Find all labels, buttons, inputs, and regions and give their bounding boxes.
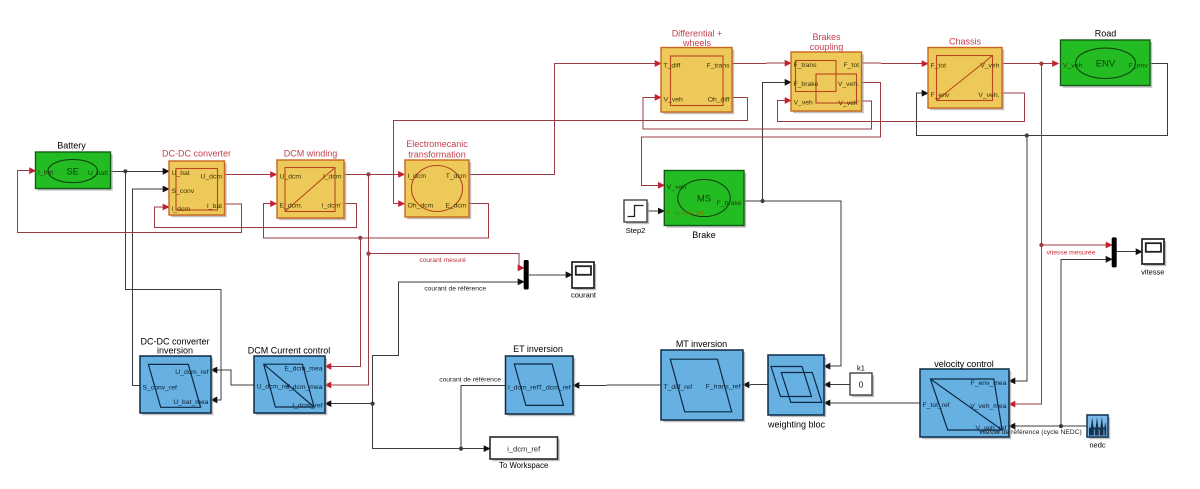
- svg-text:F_env_mea: F_env_mea: [971, 380, 1007, 387]
- svg-text:MT inversion: MT inversion: [676, 339, 727, 349]
- svg-text:inversion: inversion: [157, 345, 193, 355]
- wire I_dcm branch to I_dcm_mea: [328, 174, 369, 385]
- svg-text:F_tot: F_tot: [844, 62, 860, 69]
- svg-text:Oh_dcm: Oh_dcm: [408, 203, 434, 210]
- svg-text:I_dcm: I_dcm: [323, 173, 342, 180]
- svg-text:I_dcm_ref: I_dcm_ref: [292, 403, 322, 410]
- arrowhead into F_trans: [785, 60, 792, 67]
- svg-text:U_dcm_ref: U_dcm_ref: [257, 384, 290, 391]
- svg-text:Brake: Brake: [692, 230, 716, 240]
- svg-text:I_dcm: I_dcm: [408, 173, 427, 180]
- svg-text:weighting bloc: weighting bloc: [767, 420, 826, 430]
- arrowhead into I_dcm_mea: [324, 382, 331, 389]
- wire courant mux to courant scope: [529, 274, 570, 276]
- block DCM Current control: [254, 356, 327, 415]
- arrowhead into I_bat: [29, 167, 36, 174]
- arrowhead into V_veh of Road: [1052, 60, 1059, 67]
- arrowhead into courant mux input 1: [518, 265, 525, 272]
- arrowhead into V_veh_mea: [1008, 401, 1015, 408]
- block To Workspace (i_dcm_ref): [490, 437, 560, 461]
- wire Step2 to F_brake_ref: [647, 210, 662, 212]
- wire Differential Oh_diff to ET Oh_dcm: [394, 97, 748, 203]
- wire U_batt branch to U_bat_mea: [125, 171, 220, 400]
- svg-text:T_dcm_ref: T_dcm_ref: [538, 384, 571, 391]
- svg-text:V_veh.: V_veh.: [838, 81, 859, 88]
- wire i_dcm_ref branch to DCM CC I_dcm_ref: [328, 404, 462, 449]
- svg-text:Oh_diff: Oh_diff: [708, 96, 730, 103]
- svg-text:V_veh: V_veh: [1063, 62, 1082, 69]
- wire k1 to weighting input 2: [827, 384, 851, 386]
- block Battery (SE source): [36, 152, 113, 191]
- arrowhead into T_dcm_ref: [572, 382, 579, 389]
- wire F_brake to weighting top input: [744, 201, 841, 366]
- svg-text:courant de référence: courant de référence: [439, 377, 501, 384]
- arrowhead into V_veh of Brakes: [785, 97, 792, 104]
- svg-text:V_veh.: V_veh.: [978, 92, 999, 99]
- wire S_conv_ref to S_conv: [132, 189, 166, 385]
- wire velocity F_tot_ref to weighting input 3: [827, 402, 921, 404]
- svg-text:DCM Current control: DCM Current control: [248, 346, 331, 356]
- arrowhead into F_tot: [922, 60, 929, 67]
- svg-text:U_bat: U_bat: [172, 170, 190, 177]
- svg-text:Road: Road: [1095, 29, 1117, 39]
- svg-text:F_env: F_env: [931, 92, 950, 99]
- arrowhead into F_env_mea: [1008, 378, 1015, 385]
- svg-text:Electromecanic: Electromecanic: [406, 139, 468, 149]
- svg-text:Battery: Battery: [57, 141, 86, 151]
- arrowhead into F_trans_ref: [742, 381, 749, 388]
- svg-text:DCM winding: DCM winding: [284, 149, 338, 159]
- svg-text:V_veh_mea: V_veh_mea: [970, 403, 1006, 410]
- svg-text:Brakes: Brakes: [812, 32, 841, 42]
- arrowhead into courant mux input 2: [518, 278, 525, 285]
- wire MT T_diff_ref to ET T_dcm_ref: [576, 384, 662, 386]
- arrowhead into I_dcm: [398, 171, 405, 178]
- arrowhead into vitesse scope: [1136, 248, 1143, 255]
- svg-text:vitesse mesurée: vitesse mesurée: [1047, 249, 1096, 256]
- wire DCM winding I_dcm to ET I_dcm: [344, 173, 402, 175]
- arrowhead into I_dcm_ref: [324, 400, 331, 407]
- wire Chassis V_veh to Road V_veh: [1002, 63, 1056, 65]
- arrowhead into vitesse mux input 2: [1106, 256, 1113, 263]
- svg-text:F_brake: F_brake: [717, 200, 742, 207]
- svg-text:F_brake: F_brake: [794, 81, 819, 88]
- svg-text:V_veh: V_veh: [667, 184, 686, 191]
- block Differential + wheels: [661, 48, 734, 115]
- wire E_dcm branch to E_dcm_mea: [328, 238, 361, 367]
- wire weighting bloc to MT F_trans_ref: [746, 384, 769, 386]
- svg-text:F_brake_ref: F_brake_ref: [667, 210, 704, 217]
- wire ET I_dcm_ref to To Workspace: [461, 386, 506, 449]
- wire DC-DC U_dcm to DCM winding U_dcm: [225, 174, 275, 176]
- svg-text:T_diff_ref: T_diff_ref: [664, 384, 693, 391]
- svg-text:U_dcm: U_dcm: [280, 173, 302, 180]
- wire U_batt -> U_bat: [111, 170, 167, 172]
- svg-text:I_bat: I_bat: [207, 203, 222, 210]
- arrowhead into I_dcm: [163, 204, 170, 211]
- block Brakes coupling: [791, 52, 864, 113]
- arrowhead into E_dcm.: [270, 200, 277, 207]
- wire DC-DC I_bat feedback to Battery I_bat: [18, 171, 242, 233]
- svg-text:F_env: F_env: [1129, 62, 1148, 69]
- block Step2 (step source): [624, 200, 649, 224]
- svg-text:F_tot: F_tot: [931, 63, 947, 70]
- svg-text:transformation: transformation: [408, 150, 466, 160]
- svg-text:courant de référence: courant de référence: [424, 286, 486, 293]
- block DCM winding: [277, 160, 346, 220]
- block weighting bloc: [768, 355, 826, 417]
- svg-text:F_tot_ref: F_tot_ref: [923, 402, 950, 409]
- svg-text:vitesse: vitesse: [1141, 268, 1164, 277]
- arrowhead into Oh_dcm: [398, 200, 405, 207]
- svg-text:Step2: Step2: [626, 226, 646, 235]
- arrowhead into courant scope: [566, 271, 573, 278]
- wire Brakes F_tot to Chassis F_tot: [862, 62, 926, 65]
- svg-text:F_trans: F_trans: [794, 62, 818, 69]
- wire F_brake branch up to Brakes F_brake: [763, 82, 789, 201]
- arrowhead into F_brake: [785, 79, 792, 86]
- arrowhead into U_bat_mea: [210, 397, 217, 404]
- arrowhead into weighting input 3: [823, 400, 830, 407]
- arrowhead into V_veh_ref: [1008, 423, 1015, 430]
- wire V_veh branch to velocity V_veh_mea: [1012, 64, 1042, 405]
- svg-text:U_batt: U_batt: [88, 170, 108, 177]
- mux (courant): [524, 260, 529, 290]
- arrowhead into U_dcm: [270, 171, 277, 178]
- arrowhead into S_conv: [163, 186, 170, 193]
- block Chassis: [928, 48, 1004, 111]
- svg-text:ENV: ENV: [1096, 59, 1116, 70]
- svg-text:T_diff: T_diff: [664, 62, 681, 69]
- wire Brakes V_veh' to Differential V_veh: [643, 97, 871, 128]
- svg-text:ET inversion: ET inversion: [513, 344, 563, 354]
- wire courant de reference to courant mux: [373, 282, 522, 404]
- arrowhead into F_env: [922, 90, 929, 97]
- block ET inversion: [506, 356, 576, 416]
- wire DCM winding I_dcm' feedback to DC-DC I_dcm: [155, 204, 357, 228]
- svg-text:E_dcm: E_dcm: [445, 203, 466, 210]
- arrowhead into E_dcm_mea: [324, 363, 331, 370]
- svg-text:0: 0: [859, 381, 864, 390]
- wire vitesse mux to vitesse scope: [1117, 251, 1140, 253]
- arrowhead into vitesse mux input 1: [1106, 242, 1113, 249]
- wire F_env branch to velocity F_env_mea: [1012, 136, 1027, 381]
- svg-text:I_dcm: I_dcm: [172, 206, 191, 213]
- block courant scope: [572, 262, 596, 290]
- svg-text:I_dcm_mea: I_dcm_mea: [287, 384, 323, 391]
- arrowhead into V_veh of Differential: [655, 94, 662, 101]
- block MT inversion: [661, 350, 745, 422]
- svg-text:V_veh: V_veh: [794, 99, 813, 106]
- svg-text:k1: k1: [857, 364, 865, 373]
- svg-text:I_bat: I_bat: [38, 170, 53, 177]
- svg-text:S_conv: S_conv: [172, 188, 195, 195]
- block DC-DC converter inversion: [140, 356, 213, 415]
- wire nedc branch to vitesse mux: [1061, 259, 1110, 426]
- wire Brakes V_veh. to Brake V_veh: [642, 82, 881, 185]
- svg-text:wheels: wheels: [682, 38, 712, 48]
- svg-text:Chassis: Chassis: [949, 37, 982, 47]
- svg-text:U_dcm_ref: U_dcm_ref: [175, 369, 208, 376]
- svg-text:I_dcm': I_dcm': [322, 203, 342, 210]
- block vitesse scope: [1142, 239, 1166, 266]
- arrowhead into F_brake_ref: [658, 208, 665, 215]
- arrowhead into To Workspace: [484, 445, 491, 452]
- svg-text:V_veh: V_veh: [664, 96, 683, 103]
- svg-text:V_veh: V_veh: [980, 63, 999, 70]
- wire ET T_dcm to Differential T_diff: [469, 64, 659, 175]
- svg-text:courant: courant: [571, 290, 597, 299]
- svg-text:coupling: coupling: [810, 42, 844, 52]
- wire nedc to velocity V_veh_ref: [1012, 425, 1088, 427]
- arrowhead into T_diff: [655, 60, 662, 67]
- svg-text:SE: SE: [66, 166, 79, 177]
- svg-text:I_dcm_ref: I_dcm_ref: [508, 385, 538, 392]
- svg-text:i_dcm_ref: i_dcm_ref: [507, 444, 541, 453]
- svg-text:U_dcm: U_dcm: [200, 173, 222, 180]
- block Electromecanic transformation: [405, 160, 471, 219]
- wire DCM CC U_dcm_ref to DC-DC inversion: [214, 370, 255, 385]
- wire Road F_env feedback to Chassis F_env: [916, 64, 1167, 136]
- block Road (ENV source): [1061, 40, 1153, 88]
- svg-text:E_dcm_mea: E_dcm_mea: [284, 365, 322, 372]
- svg-text:vitesse de référence (cycle NE: vitesse de référence (cycle NEDC): [979, 429, 1082, 436]
- wire Differential F_trans to Brakes F_trans: [732, 62, 789, 64]
- svg-text:nedc: nedc: [1089, 441, 1106, 450]
- svg-text:DC-DC converter: DC-DC converter: [162, 149, 231, 159]
- svg-text:courant mesuré: courant mesuré: [419, 257, 466, 264]
- arrowhead into weighting input 2: [823, 381, 830, 388]
- block Brake (MS source): [664, 171, 746, 228]
- svg-text:To Workspace: To Workspace: [499, 461, 548, 470]
- svg-text:T_dcm: T_dcm: [446, 173, 467, 180]
- svg-text:F_trans: F_trans: [706, 62, 730, 69]
- svg-text:MS: MS: [697, 193, 711, 204]
- arrowhead into U_bat: [163, 168, 170, 175]
- svg-text:S_conv_ref: S_conv_ref: [143, 384, 177, 391]
- wire ET E_dcm feedback to DCM winding E_dcm.: [264, 204, 489, 238]
- wire Chassis V_veh. feedback to Brakes V_veh: [777, 93, 1024, 122]
- block nedc (NEDC cycle source): [1087, 415, 1110, 439]
- wire courant mesure to courant mux: [369, 254, 522, 268]
- arrowhead into V_veh of Brake: [658, 182, 665, 189]
- svg-text:Differential +: Differential +: [672, 28, 723, 38]
- block velocity control: [920, 369, 1011, 439]
- svg-text:F_trans_ref: F_trans_ref: [706, 384, 741, 391]
- mux (vitesse): [1112, 237, 1117, 267]
- svg-text:U_bat_mea: U_bat_mea: [173, 399, 208, 406]
- block DC-DC converter: [169, 161, 227, 217]
- arrowhead into U_dcm_ref: [210, 367, 217, 374]
- arrowhead into weighting input 1: [823, 363, 830, 370]
- svg-text:velocity control: velocity control: [934, 359, 994, 369]
- svg-text:E_dcm.: E_dcm.: [280, 203, 303, 210]
- block k1 (constant 0): [850, 373, 874, 397]
- wire vitesse mesuree to vitesse mux: [1041, 244, 1109, 246]
- svg-text:V_veh': V_veh': [838, 100, 859, 107]
